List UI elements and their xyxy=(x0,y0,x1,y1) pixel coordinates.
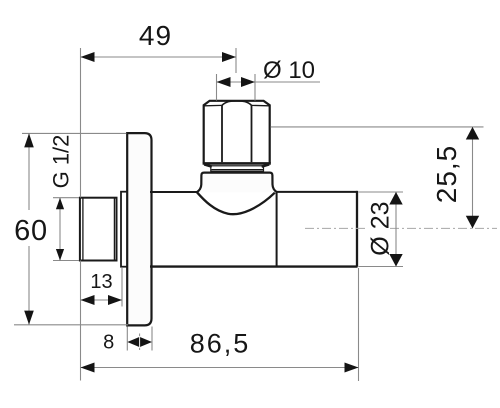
body bottom line xyxy=(150,265,358,267)
washer inner line xyxy=(212,169,264,171)
body top line left xyxy=(150,191,198,193)
O10 left extension xyxy=(216,74,218,101)
G 1/2 top extension xyxy=(53,197,79,199)
svg-text:49: 49 xyxy=(139,20,172,51)
arrow 49 right xyxy=(222,52,236,62)
O23 top extension xyxy=(359,191,404,193)
svg-text:8: 8 xyxy=(103,332,114,354)
hex top right facet line xyxy=(252,104,270,106)
wall flange xyxy=(127,133,151,325)
dimension O23 line xyxy=(395,192,397,267)
svg-text:Ø 23: Ø 23 xyxy=(367,201,395,255)
arrow O23 top xyxy=(389,192,402,205)
dimension 25,5 line xyxy=(472,127,474,228)
nipple left chamfer line xyxy=(82,198,84,259)
svg-text:25,5: 25,5 xyxy=(431,145,462,204)
O23 bottom extension xyxy=(359,266,404,268)
arrow 25,5 top xyxy=(466,127,479,140)
arrow 49 left xyxy=(81,52,95,62)
pipe right end xyxy=(356,191,358,267)
dimension 60 bottom extension xyxy=(14,324,128,326)
arrow 8 diamond xyxy=(139,334,141,351)
dimension 60 top extension xyxy=(22,132,126,134)
arrow 25,5 bottom xyxy=(466,216,479,229)
hex facet line left xyxy=(221,106,223,163)
body/pipe junction line xyxy=(276,192,278,267)
pipe top line xyxy=(276,191,358,193)
arrow 13 left xyxy=(81,295,95,305)
arrow G 1/2 top xyxy=(56,198,64,210)
G 1/2 bottom extension xyxy=(53,260,79,262)
hex cap bottom edge xyxy=(203,162,271,165)
bonnet xyxy=(197,173,278,193)
dimension 86,5 right extension xyxy=(358,268,360,381)
hex bottom left wedge xyxy=(204,164,212,166)
svg-text:13: 13 xyxy=(90,271,112,293)
svg-text:Ø 10: Ø 10 xyxy=(263,57,315,84)
centre line of pipe xyxy=(305,227,497,229)
dimension 49 right extension xyxy=(235,48,237,73)
arrow 86,5 right xyxy=(345,363,359,373)
hex top left facet line xyxy=(204,104,222,106)
washer under hex cap xyxy=(211,166,264,171)
dimension 86,5 line xyxy=(81,367,359,369)
dimension 13 right extension xyxy=(121,268,123,307)
hex bottom right wedge xyxy=(262,164,270,166)
dimension O10 leader line xyxy=(217,81,321,83)
extension line 25,5 top xyxy=(271,126,484,128)
dimension G 1/2 line xyxy=(59,198,61,261)
hex cap outline xyxy=(204,101,270,164)
hex top crown arc xyxy=(222,101,252,106)
svg-text:86,5: 86,5 xyxy=(190,329,251,359)
dimension 49 line xyxy=(81,56,237,58)
arrow O23 bottom xyxy=(389,254,402,267)
O10 right extension xyxy=(254,74,256,101)
arrow 60 bottom xyxy=(24,311,34,325)
hex facet line right xyxy=(251,106,253,163)
dimension 60 line xyxy=(28,133,30,210)
arrow O10 right xyxy=(241,77,255,87)
dimension 8 centre tick xyxy=(139,336,141,348)
nipple right end line xyxy=(113,198,115,259)
arrow 60 top xyxy=(24,133,34,147)
dimension 8 right extension xyxy=(151,327,153,351)
threaded nipple G 1/2 xyxy=(80,198,117,261)
bonnet-body concave fillet curve xyxy=(197,192,275,214)
arrow O10 left xyxy=(217,77,231,87)
arrow G 1/2 bottom xyxy=(56,249,64,261)
ring between nipple and flange xyxy=(121,192,127,267)
arrow 13 right xyxy=(108,295,122,305)
extension line left long (x=80.5) xyxy=(80,48,82,198)
svg-text:60: 60 xyxy=(14,215,48,247)
svg-text:G 1/2: G 1/2 xyxy=(49,135,74,189)
dimension 8 left extension xyxy=(126,327,128,351)
dimension 13 line xyxy=(81,299,123,301)
label O23 backing xyxy=(366,205,390,252)
arrow 86,5 left xyxy=(81,363,95,373)
